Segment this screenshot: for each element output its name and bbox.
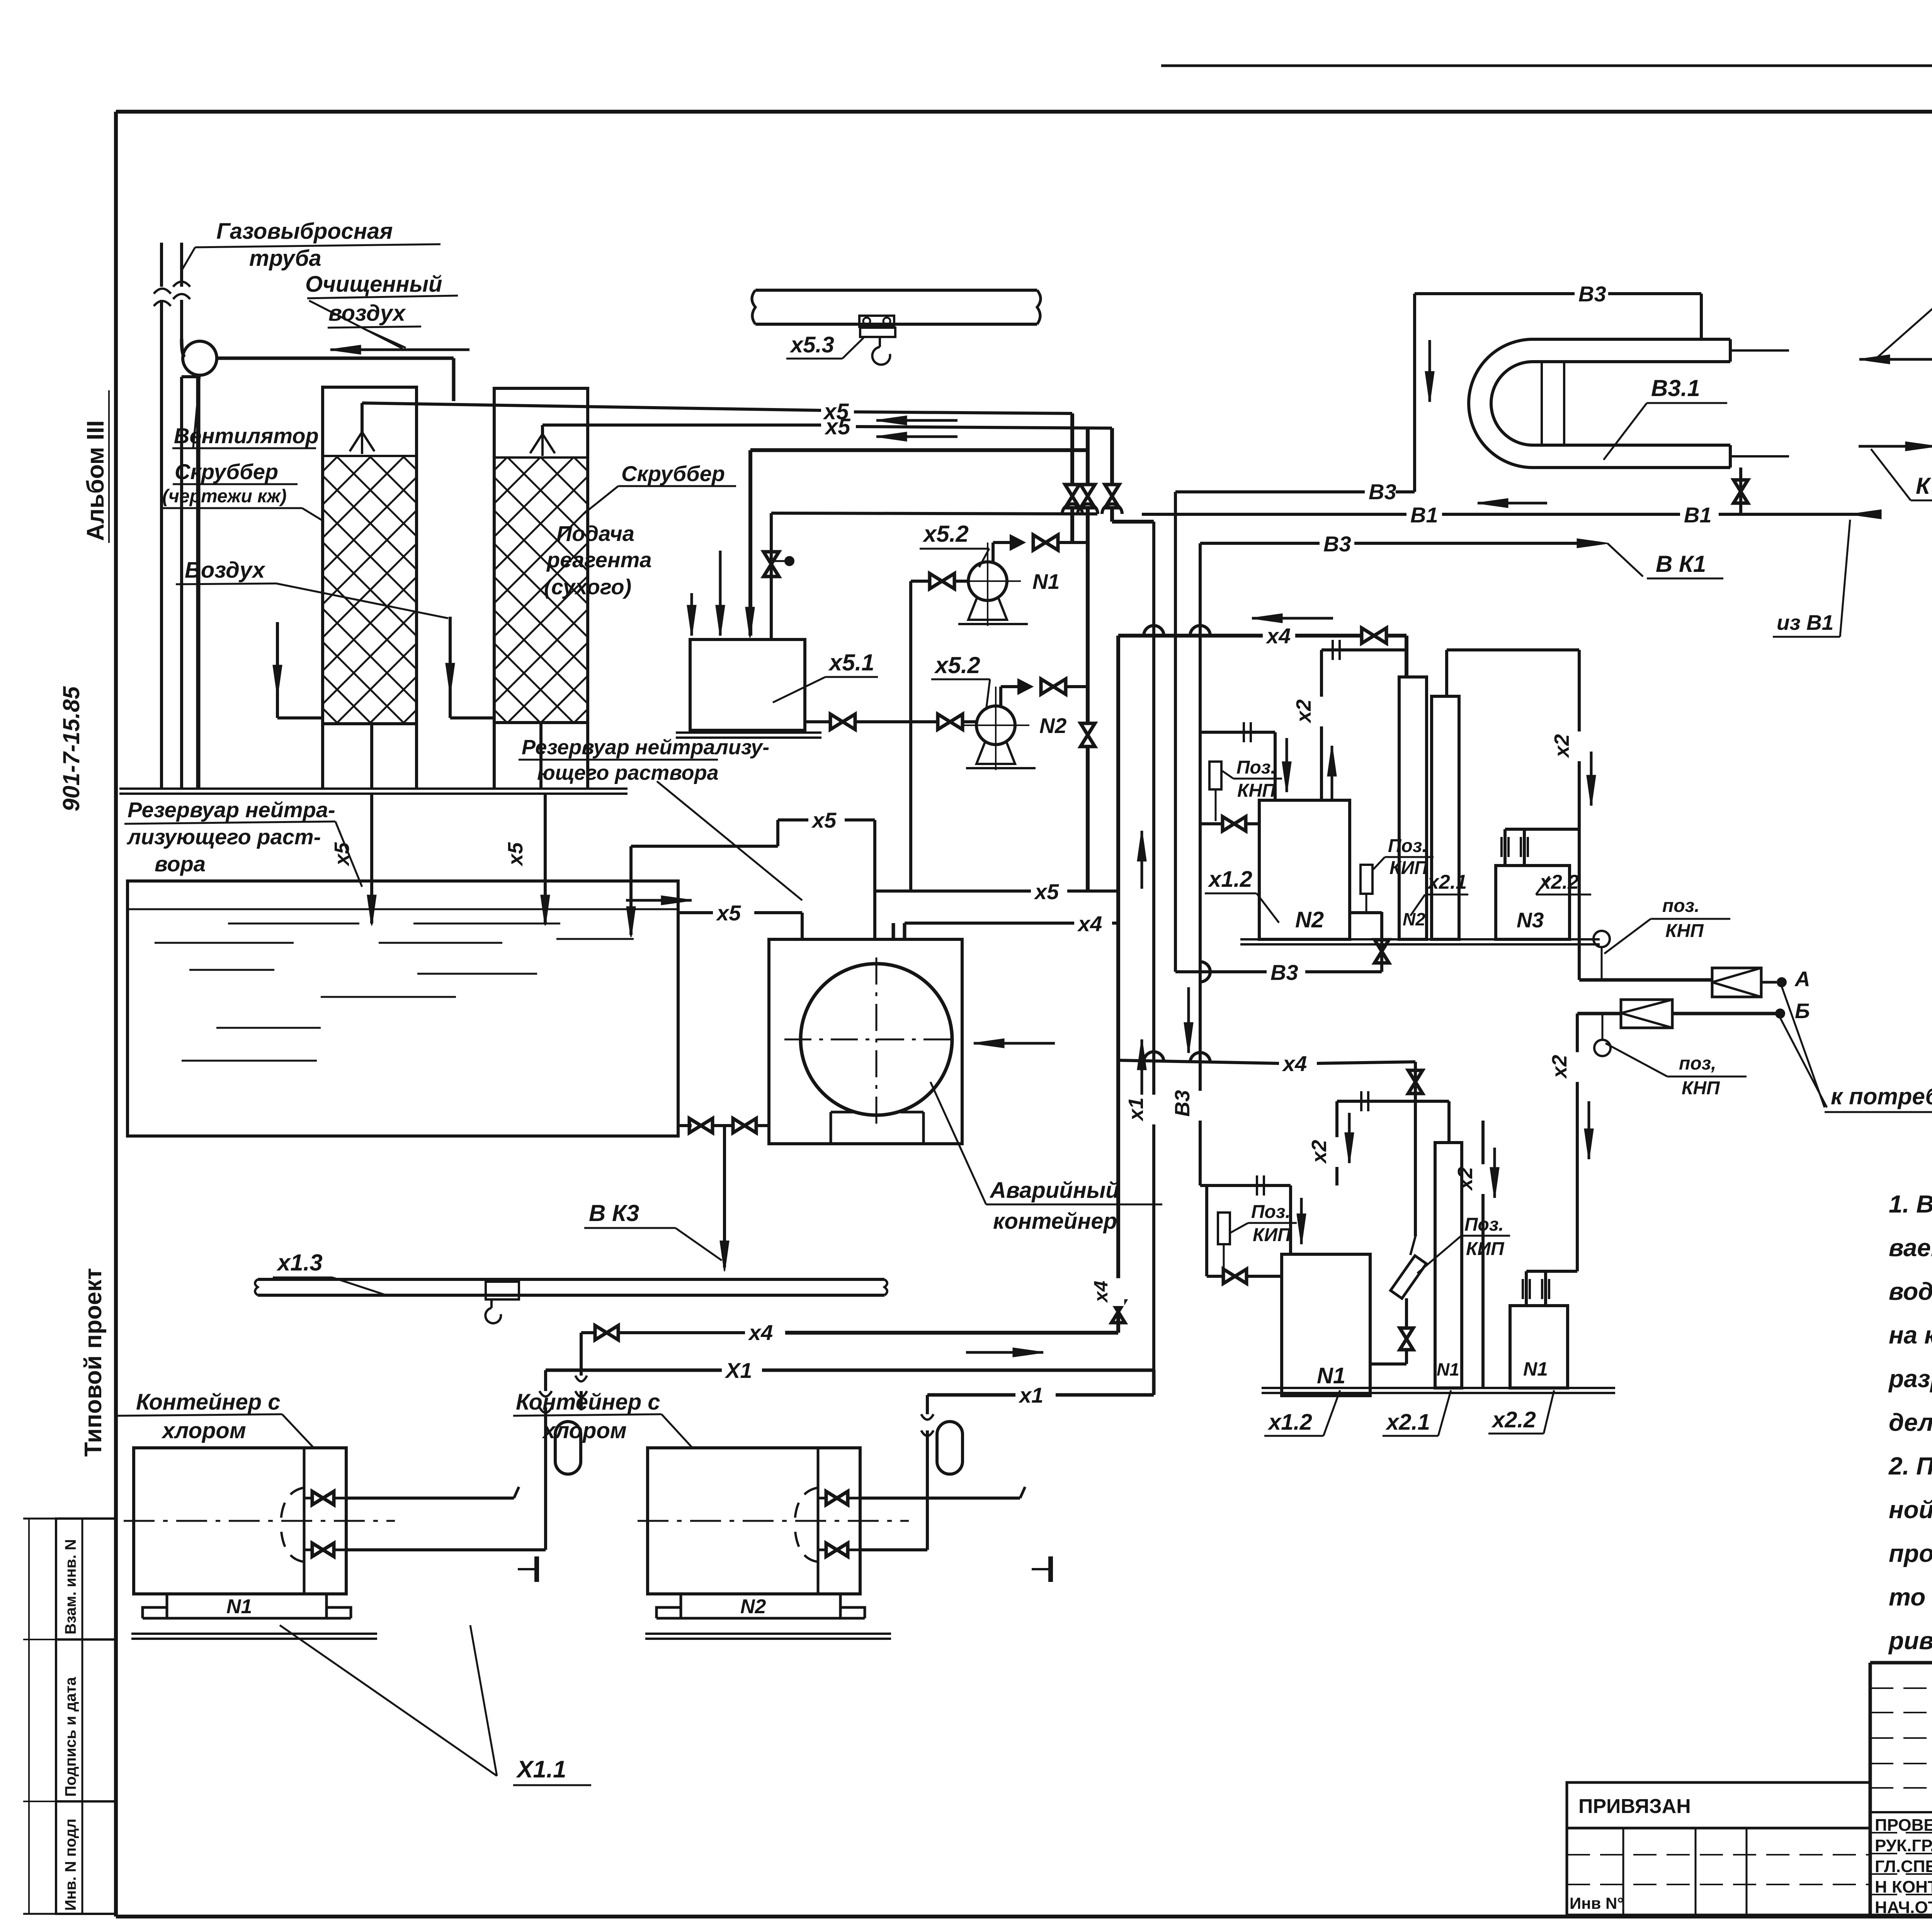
- container 2 filter capsule: [937, 1422, 963, 1474]
- svg-text:А: А: [1794, 967, 1810, 991]
- stamp column boxes: [56, 1519, 116, 1914]
- х4 lower run: [1118, 1060, 1279, 1063]
- container 2 lower takeoff to riser: [860, 1548, 927, 1551]
- svg-text:N2: N2: [1039, 714, 1067, 738]
- monorail beam х5.3: [755, 289, 1037, 292]
- left annex table: [1566, 1828, 1568, 1915]
- svg-text:1. Вариант подачи хлора в точ: 1. Вариант подачи хлора в точке ввода пр…: [1889, 1190, 1932, 1218]
- svg-text:КНП: КНП: [1665, 921, 1704, 941]
- х1.2 lower inlet valve: [1207, 1275, 1223, 1278]
- svg-text:х5.1: х5.1: [828, 650, 874, 675]
- svg-text:хлором: хлором: [161, 1418, 246, 1443]
- svg-text:х5: х5: [824, 414, 850, 439]
- х5 drop pipe from scrubber 2: [544, 794, 547, 923]
- pipes into emergency container: [892, 923, 895, 939]
- scrubber 1 packing hatch: [0, 456, 1069, 724]
- pump suction riser: [909, 581, 912, 891]
- svg-text:В1: В1: [1684, 503, 1712, 527]
- х5 line A flow arrow: [876, 419, 957, 422]
- scrubber 2 packing hatch: [142, 457, 1238, 723]
- svg-text:Х1.1: Х1.1: [516, 1756, 566, 1783]
- svg-text:на канализационных станциях: на канализационных станциях и в данном п…: [1889, 1321, 1932, 1349]
- svg-text:Очищенный: Очищенный: [305, 272, 442, 297]
- svg-text:901-7-15.85: 901-7-15.85: [58, 686, 84, 811]
- container 2 riser with flex hooks: [926, 1395, 929, 1414]
- svg-text:ГЛ.СПЕЦ: ГЛ.СПЕЦ: [1875, 1857, 1932, 1876]
- line A with restrictor: [1579, 978, 1712, 982]
- К ТО flow arrow: [1859, 445, 1932, 448]
- svg-text:(сухого): (сухого): [544, 575, 631, 599]
- svg-text:N1: N1: [1523, 1358, 1548, 1380]
- fan outlet duct: [217, 357, 454, 360]
- svg-text:проводе перед затворным: проводе перед затворным баком (поз. Х5.1…: [1889, 1539, 1932, 1567]
- heat exchanger В3.1 lower pipe: [1533, 444, 1730, 447]
- В1 flow arrow left: [1478, 502, 1547, 505]
- svg-text:х4: х4: [748, 1320, 773, 1345]
- х5 riser C crossover to х1: [1110, 428, 1114, 485]
- х1.2 upper inlet valve: [1200, 822, 1222, 825]
- air inlet pipe 2: [449, 617, 452, 718]
- container N2 skid: [656, 1617, 865, 1620]
- х4 distribution to emergency container: [905, 922, 1074, 925]
- pipe from exchanger to ТО lower: [1730, 455, 1789, 457]
- svg-text:х2.1: х2.1: [1385, 1410, 1430, 1435]
- reservoir tank: [128, 881, 678, 1136]
- х5 label near tank: [626, 899, 692, 902]
- svg-text:ривается ручной вентиль.: ривается ручной вентиль.: [1888, 1627, 1932, 1655]
- svg-text:Скруббер: Скруббер: [175, 459, 278, 484]
- container with chlorine N1 body: [134, 1448, 346, 1594]
- svg-text:из В1: из В1: [1777, 611, 1833, 634]
- container N2 ground: [645, 1633, 891, 1635]
- svg-text:Подпись и дата: Подпись и дата: [62, 1677, 79, 1797]
- svg-text:КНП: КНП: [1237, 781, 1276, 801]
- х2 pass line lower: [1481, 1121, 1485, 1388]
- title block outline: [1870, 1661, 1932, 1665]
- chlorinator х2.2 upper body N3: [1496, 866, 1570, 939]
- svg-text:х4: х4: [1265, 624, 1291, 648]
- svg-text:х1: х1: [1018, 1383, 1043, 1407]
- tank outlet to pumps: [805, 720, 830, 723]
- svg-text:КИП: КИП: [1389, 858, 1428, 878]
- х5 feed line into tank: [750, 448, 1088, 452]
- х2 riser right upper: [1578, 650, 1581, 829]
- svg-text:В3: В3: [1578, 282, 1606, 306]
- svg-text:2. При варианте работы х: 2. При варианте работы хлораторной с пос…: [1888, 1452, 1932, 1480]
- svg-text:ПРИВЯЗАН: ПРИВЯЗАН: [1578, 1795, 1691, 1818]
- gas vent stack: [160, 243, 163, 789]
- svg-text:КНП: КНП: [1682, 1078, 1720, 1099]
- lower column х2 connection: [1447, 1101, 1451, 1143]
- svg-text:Контейнер с: Контейнер с: [516, 1389, 660, 1415]
- svg-text:Инв. N подл: Инв. N подл: [62, 1818, 79, 1911]
- container N1 valves: [312, 1492, 323, 1505]
- х4 upper flow arrow: [1252, 617, 1333, 620]
- х5 riser B to pumps: [1086, 428, 1090, 485]
- х2 riser from х1.2 upper: [1320, 650, 1323, 800]
- svg-text:В3.1: В3.1: [1651, 375, 1700, 401]
- х1 lower corner run: [546, 1369, 722, 1372]
- instrument поз КИП lower left: [1218, 1213, 1230, 1244]
- svg-text:контейнер: контейнер: [993, 1209, 1117, 1234]
- svg-text:х1.2: х1.2: [1267, 1410, 1312, 1435]
- svg-text:х1.2: х1.2: [1207, 867, 1252, 892]
- instrument поз КНП upper: [1209, 762, 1221, 789]
- svg-text:КИП: КИП: [1253, 1225, 1291, 1245]
- svg-text:Резервуар нейтрализу-: Резервуар нейтрализу-: [522, 736, 769, 759]
- х5 line B flow arrow: [876, 435, 957, 438]
- pipe В1 main: [771, 513, 1097, 514]
- lower group ground line: [1262, 1387, 1615, 1389]
- В1 right end arrow: [1851, 510, 1881, 519]
- container N1 ground: [131, 1633, 377, 1635]
- х2 lower riser: [1576, 1014, 1579, 1271]
- upper evaporator column 2: [1432, 696, 1459, 939]
- svg-text:водопровадных станций и смес: водопровадных станций и смесителей воды …: [1889, 1277, 1932, 1305]
- chlorinator х1.2 upper body N2: [1259, 800, 1350, 939]
- reagent feed arrow: [690, 593, 693, 636]
- emergency container saddle: [830, 1112, 832, 1144]
- instrument поз КИП middle: [1361, 865, 1372, 894]
- container 1 riser with flex hooks: [544, 1370, 547, 1391]
- svg-text:N1: N1: [1437, 1359, 1459, 1379]
- svg-text:КИП: КИП: [1466, 1239, 1505, 1259]
- х4 link riser: [1116, 636, 1120, 1333]
- svg-text:х4: х4: [1077, 912, 1102, 936]
- ground line under scrubbers: [119, 787, 628, 790]
- lower chlorinator х2.2 body N1: [1510, 1306, 1568, 1388]
- svg-text:Газовыбросная: Газовыбросная: [216, 219, 393, 244]
- В3 down arrow: [1429, 340, 1431, 402]
- pipe В3 mid run to К1: [1200, 542, 1320, 545]
- reagent feed arrow into tank: [719, 551, 722, 636]
- х1 riser: [1152, 522, 1155, 1370]
- svg-text:В3: В3: [1171, 1090, 1194, 1117]
- leader to emergency pit water: [657, 781, 802, 900]
- svg-text:х4: х4: [1282, 1051, 1307, 1076]
- monorail х1.3 trolley and hook: [486, 1282, 519, 1299]
- svg-text:х5.2: х5.2: [922, 521, 969, 547]
- container N1 internal dashed pipes: [281, 1488, 304, 1520]
- svg-text:Резервуар нейтра-: Резервуар нейтра-: [128, 798, 335, 822]
- reservoir water strokes: [228, 923, 359, 925]
- pump N1 discharge with check and gate valves: [992, 543, 995, 562]
- х4 upper run: [1118, 634, 1263, 638]
- scrubber 2: [494, 388, 588, 723]
- svg-text:х2: х2: [1550, 734, 1573, 759]
- svg-text:воздух: воздух: [328, 301, 406, 326]
- upper group ground line: [1240, 938, 1600, 940]
- pump N2 discharge with check and gate valves: [999, 687, 1002, 706]
- х5 riser A to pumps: [1070, 413, 1074, 485]
- svg-text:вается при проектировании пр: вается при проектировании производственн…: [1889, 1234, 1932, 1262]
- drawing frame: [116, 110, 1932, 114]
- svg-text:Поз.: Поз.: [1236, 757, 1276, 778]
- svg-text:Аварийный: Аварийный: [989, 1178, 1119, 1203]
- pump N2: [976, 706, 1015, 745]
- monorail hook: [879, 337, 881, 347]
- container N2 axis line: [638, 1520, 909, 1522]
- monorail beam х1.3: [258, 1278, 884, 1281]
- х4 drop to container 1: [580, 1333, 583, 1376]
- svg-text:N1: N1: [1317, 1363, 1345, 1388]
- container N1 pallet: [167, 1594, 327, 1618]
- svg-text:х2.2: х2.2: [1491, 1407, 1536, 1432]
- svg-text:Скруббер: Скруббер: [621, 461, 725, 486]
- pipe В3 upper run: [1175, 490, 1365, 493]
- svg-text:В3: В3: [1270, 960, 1298, 985]
- svg-text:N1: N1: [226, 1595, 252, 1618]
- sheet top rule: [1161, 65, 1932, 67]
- svg-text:х5: х5: [716, 901, 741, 925]
- container 1 upper takeoff: [346, 1497, 514, 1500]
- svg-text:N2: N2: [740, 1595, 766, 1618]
- svg-text:к потребителю: к потребителю: [1831, 1083, 1932, 1109]
- svg-text:К ТО: К ТО: [1916, 473, 1932, 499]
- svg-text:В3: В3: [1369, 480, 1396, 504]
- emergency container pit: [769, 939, 962, 1144]
- tank х5.1 ground: [676, 731, 821, 734]
- х4 run to container 1: [581, 1331, 594, 1334]
- heat exchanger U bend: [1469, 339, 1533, 468]
- N3 upper top stubs with unions: [1503, 829, 1507, 866]
- svg-text:х5.3: х5.3: [789, 332, 834, 357]
- х4 drop to upper column: [1405, 636, 1408, 677]
- svg-text:х5.2: х5.2: [934, 652, 980, 678]
- svg-text:Взам. инв. N: Взам. инв. N: [62, 1539, 79, 1634]
- svg-text:поз.: поз.: [1662, 896, 1699, 916]
- container 1 filter capsule: [555, 1422, 581, 1474]
- svg-text:В К3: В К3: [589, 1200, 639, 1226]
- scrubber 2 legs: [493, 723, 496, 789]
- air inlet pipe 1: [276, 622, 279, 718]
- pump N2 suction: [911, 720, 937, 723]
- svg-text:Воздух: Воздух: [185, 558, 266, 583]
- container N2 pallet: [681, 1594, 840, 1618]
- svg-text:Типовой проект: Типовой проект: [80, 1268, 107, 1457]
- х4 drop into lower group: [1414, 1062, 1417, 1236]
- container N2 internal dashed pipes: [795, 1488, 818, 1520]
- pump N1: [968, 562, 1007, 600]
- х1.2 upper branch with union: [1200, 731, 1275, 734]
- leaders to consumer label: [1782, 986, 1825, 1107]
- container 2 upper takeoff: [860, 1497, 1020, 1500]
- svg-text:N2: N2: [1295, 907, 1324, 932]
- В3 branch to upper chlorinator drain: [1174, 492, 1177, 972]
- В3 riser: [1199, 543, 1202, 1185]
- fan: [183, 341, 217, 375]
- В1 feed into tank with valve: [770, 513, 773, 639]
- lower chlorinator х1.2 body N1: [1282, 1254, 1370, 1396]
- svg-text:В3: В3: [1323, 532, 1351, 556]
- svg-text:реагента: реагента: [546, 548, 652, 572]
- svg-text:х2: х2: [1454, 1167, 1477, 1191]
- scrubber 1 sprayer: [361, 403, 364, 432]
- х4 lower flow arrow: [974, 1042, 1055, 1045]
- svg-text:Альбом III: Альбом III: [82, 420, 109, 541]
- х5 lower distribution run: [875, 889, 1031, 893]
- svg-text:х4: х4: [1090, 1281, 1112, 1303]
- svg-text:ПРОВЕР.: ПРОВЕР.: [1875, 1816, 1932, 1835]
- svg-text:НАЧ.ОТД: НАЧ.ОТД: [1875, 1898, 1932, 1917]
- svg-text:Контейнер с: Контейнер с: [136, 1389, 281, 1415]
- heat exchanger inner tubes: [1541, 362, 1543, 445]
- svg-text:деляется при привязке.: деляется при привязке.: [1889, 1408, 1932, 1436]
- lower evaporator column N1: [1435, 1143, 1462, 1388]
- svg-text:лизующего раст-: лизующего раст-: [126, 825, 321, 849]
- svg-text:х1: х1: [1124, 1097, 1148, 1122]
- svg-text:х2: х2: [1308, 1140, 1331, 1164]
- svg-text:х5: х5: [504, 842, 527, 867]
- svg-text:В К1: В К1: [1656, 551, 1706, 577]
- line Б with restrictor: [1577, 1012, 1621, 1015]
- В3 feed loop to lower chlorinator: [1200, 1184, 1291, 1187]
- svg-text:Поз.: Поз.: [1388, 836, 1427, 856]
- svg-text:поз,: поз,: [1679, 1053, 1716, 1074]
- pipe from exchanger to ТО upper: [1730, 349, 1789, 352]
- svg-text:Б: Б: [1795, 999, 1810, 1023]
- cleaned air flow arrow: [330, 349, 469, 351]
- reservoir water line: [128, 908, 678, 910]
- х2 line to point A: [1578, 829, 1581, 980]
- privyazan box: [1567, 1782, 1870, 1828]
- scrubber 2 sprayer: [541, 425, 544, 434]
- svg-text:N3: N3: [1517, 908, 1544, 932]
- emergency container drum: [801, 964, 952, 1115]
- svg-text:В1: В1: [1410, 503, 1438, 527]
- svg-text:Х1: Х1: [724, 1358, 752, 1383]
- pump N1 suction: [911, 580, 929, 583]
- х1 run from container 2: [927, 1393, 1015, 1397]
- х5 drop pipe from scrubber 1: [370, 794, 373, 923]
- container N1 skid: [143, 1617, 351, 1620]
- container N2 valves: [826, 1492, 837, 1505]
- svg-text:Подача: Подача: [556, 521, 634, 546]
- scrubber 1 legs: [321, 724, 324, 789]
- svg-text:х5: х5: [330, 842, 354, 867]
- х1.2 upper bottom drain step: [1350, 911, 1382, 914]
- monorail trolley: [859, 316, 894, 327]
- container 2 wall sleeve: [1048, 1556, 1053, 1582]
- svg-text:то электрофицированной задв: то электрофицированной задвижки предусма…: [1889, 1583, 1932, 1611]
- svg-text:N1: N1: [1032, 570, 1060, 594]
- svg-text:х2: х2: [1292, 699, 1315, 724]
- instrument поз КНП point Б: [1594, 1040, 1611, 1056]
- svg-text:ющего раствора: ющего раствора: [537, 761, 719, 784]
- exchanger drain valve: [1739, 468, 1742, 514]
- svg-text:ной очисткой вентиляционног: ной очисткой вентиляционного воздуха на …: [1889, 1496, 1932, 1524]
- pipe В3 to exchanger: [1415, 292, 1575, 295]
- scrubber 1: [323, 387, 417, 724]
- svg-text:хлором: хлором: [542, 1418, 627, 1443]
- svg-text:N2: N2: [1403, 909, 1425, 929]
- title block fine rows: [1870, 1687, 1932, 1689]
- svg-text:Инв N°: Инв N°: [1570, 1894, 1624, 1912]
- lower N1 box top stubs: [1525, 1271, 1528, 1306]
- svg-text:Н КОНТР: Н КОНТР: [1875, 1878, 1932, 1896]
- container 1 lower takeoff to riser: [346, 1548, 546, 1551]
- svg-text:х5: х5: [1034, 879, 1059, 904]
- svg-text:(чертежи кж): (чертежи кж): [162, 486, 287, 507]
- svg-text:вора: вора: [155, 852, 206, 876]
- pipe х5 line A: [362, 403, 821, 410]
- svg-text:разрабатывается. Количество: разрабатывается. Количество точек ввода …: [1888, 1365, 1932, 1393]
- instrument поз КНП point A: [1594, 931, 1610, 947]
- svg-text:х2: х2: [1548, 1055, 1571, 1079]
- х1 flow arrow: [966, 1351, 1043, 1354]
- heat exchanger В3.1 upper pipe: [1533, 338, 1730, 341]
- svg-text:труба: труба: [249, 246, 321, 271]
- svg-text:х5: х5: [811, 808, 837, 832]
- reservoir drain with valves: [678, 1124, 692, 1127]
- stack casing: [196, 377, 201, 789]
- svg-text:х1.3: х1.3: [276, 1250, 323, 1276]
- х1 riser arrows: [1141, 1039, 1143, 1105]
- container 1 wall sleeve: [534, 1556, 539, 1582]
- tank х5.1: [690, 639, 805, 730]
- х5 return into reservoir: [629, 846, 633, 935]
- pipe х5 line B: [543, 423, 821, 427]
- container with chlorine N2 body: [648, 1448, 860, 1594]
- svg-text:РУК.ГР.: РУК.ГР.: [1875, 1836, 1932, 1855]
- container N1 axis line: [124, 1520, 395, 1522]
- svg-text:Поз.: Поз.: [1251, 1202, 1291, 1222]
- svg-text:х2.1: х2.1: [1427, 871, 1467, 893]
- upper evaporator column 1: [1399, 677, 1427, 939]
- Из ТО flow arrow: [1859, 358, 1932, 361]
